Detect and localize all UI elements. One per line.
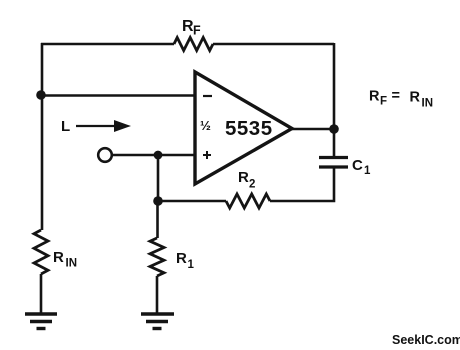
svg-text:C: C — [352, 157, 363, 174]
svg-text:5535: 5535 — [225, 117, 273, 140]
svg-text:IN: IN — [66, 258, 78, 270]
svg-text:½: ½ — [200, 118, 211, 133]
svg-text:L: L — [61, 118, 70, 135]
resistor RIN — [34, 230, 48, 274]
svg-text:R: R — [238, 169, 249, 186]
wire: output node down to capacitor — [333, 129, 336, 156]
svg-text:IN: IN — [422, 98, 434, 110]
svg-text:F: F — [193, 24, 201, 38]
wire: op-amp output — [292, 128, 334, 131]
node: output junction — [329, 124, 339, 134]
wire: left vertical from top-left corner down to RIN — [41, 43, 44, 230]
ground (left) — [25, 314, 57, 329]
svg-text:SeekIC.com: SeekIC.com — [392, 333, 460, 347]
resistor R1 — [150, 238, 164, 276]
svg-text:R: R — [369, 89, 380, 105]
wire: R1 to ground — [156, 276, 159, 314]
wire: R2 to lower node — [157, 200, 226, 203]
svg-text:R: R — [53, 249, 64, 266]
wire: right vertical from top wire down to output node — [333, 43, 336, 129]
label L with arrow — [61, 118, 131, 135]
svg-text:1: 1 — [188, 259, 195, 271]
input terminal — [98, 148, 112, 162]
wire: input terminal to non-inverting input — [112, 154, 196, 157]
svg-text:1: 1 — [364, 165, 371, 177]
wire: capacitor bottom down and left to R2 — [270, 168, 334, 201]
wire: RIN to ground — [40, 274, 43, 314]
svg-text:2: 2 — [249, 179, 255, 191]
wire: lower node down to R1 — [156, 201, 159, 238]
svg-text:=: = — [392, 88, 400, 104]
node A: inverting input junction — [36, 90, 46, 100]
resistor RF — [174, 38, 213, 51]
label RF = RIN equation — [369, 88, 433, 110]
op-amp U1 (1/2 5535) — [195, 72, 292, 184]
svg-text:R: R — [176, 250, 187, 267]
capacitor C1 — [319, 158, 348, 168]
wire: top feedback right segment — [213, 43, 334, 46]
svg-text:F: F — [380, 96, 387, 108]
node: R1/R2 junction — [153, 196, 163, 206]
ground (right) — [141, 314, 174, 329]
wire: junction down to lower node — [157, 155, 160, 201]
node: non-inverting input junction — [154, 151, 163, 160]
resistor R2 — [226, 194, 270, 208]
svg-text:R: R — [410, 90, 421, 106]
wire: inverting input horizontal — [41, 94, 196, 97]
wire: top feedback left segment — [41, 43, 174, 46]
